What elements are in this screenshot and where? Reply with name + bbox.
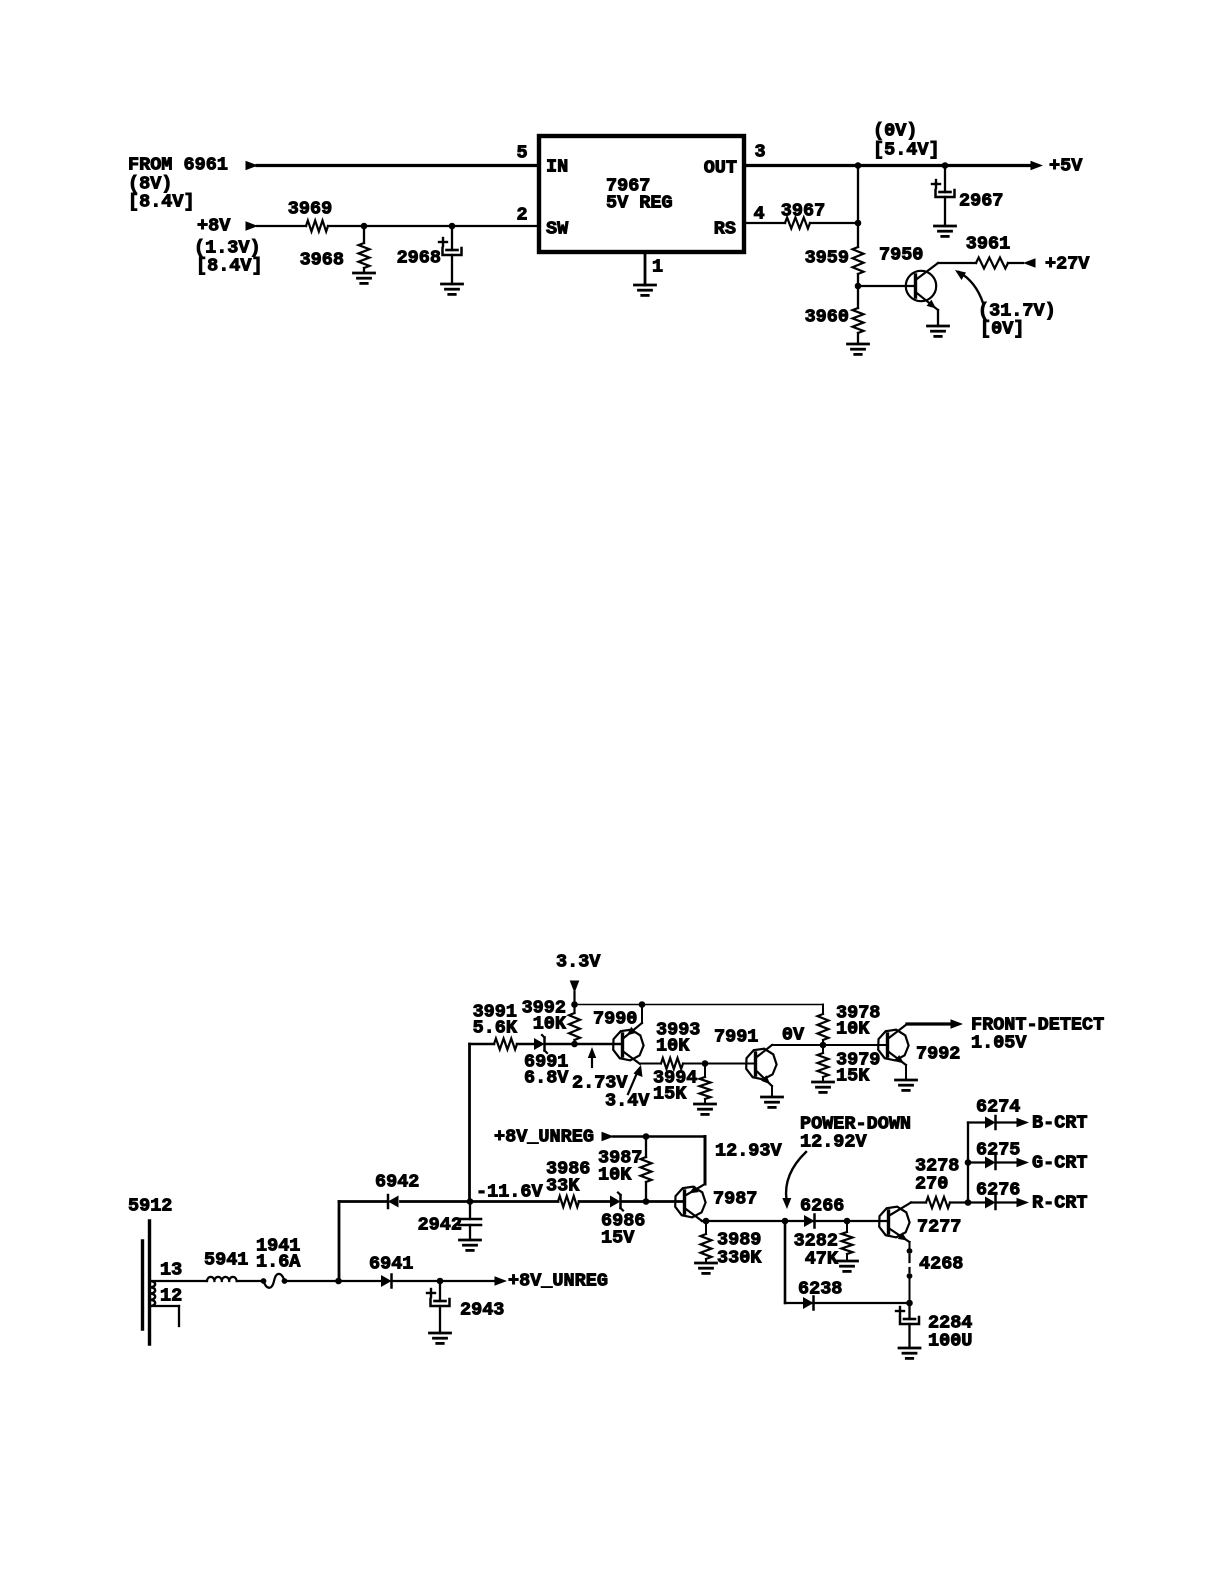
svg-text:5: 5 [516, 143, 527, 164]
svg-text:47K: 47K [805, 1249, 839, 1270]
svg-text:3968: 3968 [300, 250, 344, 271]
svg-text:6238: 6238 [798, 1279, 842, 1300]
svg-text:3.3V: 3.3V [556, 952, 601, 973]
svg-text:0V: 0V [782, 1025, 805, 1046]
svg-text:+27V: +27V [1045, 254, 1090, 275]
svg-text:3959: 3959 [805, 248, 849, 269]
svg-text:2: 2 [516, 205, 527, 226]
svg-text:6274: 6274 [976, 1097, 1020, 1118]
svg-text:270: 270 [915, 1174, 948, 1195]
svg-text:1.6A: 1.6A [256, 1252, 301, 1273]
svg-text:+8V: +8V [197, 216, 231, 237]
svg-text:+8V_UNREG: +8V_UNREG [508, 1271, 608, 1292]
svg-text:2943: 2943 [460, 1300, 504, 1321]
svg-text:7950: 7950 [879, 245, 923, 266]
svg-text:10K: 10K [533, 1014, 567, 1035]
svg-text:15K: 15K [653, 1084, 687, 1105]
svg-text:+8V_UNREG: +8V_UNREG [494, 1127, 594, 1148]
svg-text:[8.4V]: [8.4V] [196, 256, 263, 277]
svg-text:4268: 4268 [919, 1254, 963, 1275]
svg-text:3960: 3960 [805, 307, 849, 328]
svg-text:3969: 3969 [288, 199, 332, 220]
svg-text:330K: 330K [717, 1248, 762, 1269]
svg-text:6275: 6275 [976, 1140, 1020, 1161]
svg-text:5V REG: 5V REG [606, 193, 673, 214]
svg-text:10K: 10K [598, 1165, 632, 1186]
svg-text:13: 13 [160, 1260, 182, 1281]
svg-text:15V: 15V [601, 1228, 635, 1249]
svg-text:1: 1 [652, 257, 663, 278]
svg-text:5941: 5941 [204, 1250, 248, 1271]
svg-text:2968: 2968 [397, 248, 441, 269]
svg-text:5.6K: 5.6K [473, 1018, 518, 1039]
svg-text:7990: 7990 [593, 1009, 637, 1030]
svg-text:7992: 7992 [916, 1044, 960, 1065]
svg-text:2967: 2967 [959, 191, 1003, 212]
svg-text:FROM 6961: FROM 6961 [128, 155, 228, 176]
svg-text:6941: 6941 [369, 1254, 413, 1275]
svg-text:[5.4V]: [5.4V] [873, 140, 940, 161]
svg-text:[8.4V]: [8.4V] [128, 192, 195, 213]
svg-text:12.92V: 12.92V [800, 1132, 868, 1153]
svg-text:[0V]: [0V] [980, 319, 1024, 340]
svg-text:4: 4 [753, 204, 764, 225]
svg-text:3961: 3961 [966, 234, 1010, 255]
svg-text:2942: 2942 [418, 1215, 462, 1236]
svg-text:OUT: OUT [704, 158, 737, 179]
svg-text:7277: 7277 [917, 1217, 961, 1238]
svg-text:6266: 6266 [800, 1196, 844, 1217]
svg-text:6.8V: 6.8V [524, 1068, 569, 1089]
svg-text:15K: 15K [836, 1066, 870, 1087]
svg-text:3967: 3967 [781, 201, 825, 222]
svg-text:R-CRT: R-CRT [1032, 1193, 1088, 1214]
svg-text:7987: 7987 [713, 1189, 757, 1210]
svg-text:12: 12 [160, 1286, 182, 1307]
svg-text:RS: RS [714, 219, 736, 240]
svg-text:-11.6V: -11.6V [476, 1182, 544, 1203]
svg-text:12.93V: 12.93V [715, 1141, 783, 1162]
svg-text:B-CRT: B-CRT [1032, 1113, 1088, 1134]
svg-text:IN: IN [546, 157, 568, 178]
svg-text:G-CRT: G-CRT [1032, 1153, 1088, 1174]
svg-text:(0V): (0V) [873, 121, 917, 142]
svg-text:1.05V: 1.05V [971, 1033, 1027, 1054]
svg-text:100U: 100U [928, 1331, 972, 1352]
svg-text:3.4V: 3.4V [605, 1091, 650, 1112]
svg-text:6942: 6942 [375, 1172, 419, 1193]
svg-text:3: 3 [754, 142, 765, 163]
svg-text:10K: 10K [656, 1036, 690, 1057]
svg-text:6276: 6276 [976, 1180, 1020, 1201]
svg-text:SW: SW [546, 219, 569, 240]
svg-text:33K: 33K [546, 1176, 580, 1197]
svg-text:7991: 7991 [714, 1027, 758, 1048]
svg-text:10K: 10K [836, 1019, 870, 1040]
svg-text:5912: 5912 [128, 1196, 172, 1217]
svg-text:+5V: +5V [1049, 156, 1083, 177]
